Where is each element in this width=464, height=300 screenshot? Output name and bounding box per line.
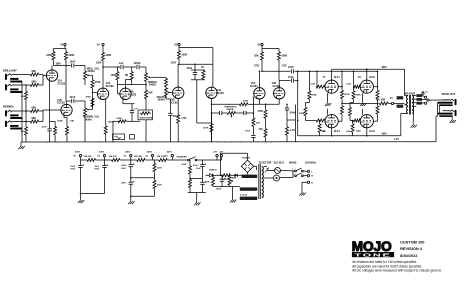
svg-text:120V/60Hz: 120V/60Hz (305, 162, 317, 164)
svg-text:1uF: 1uF (119, 62, 124, 65)
node HT b (220, 154, 222, 156)
svg-text:6.3V 4A: 6.3V 4A (240, 193, 247, 196)
svg-text:47K: 47K (206, 181, 210, 184)
resistor 10K PI tail lower (265, 124, 267, 129)
wire coupling to brill vol (54, 65, 71, 67)
resistor 470R screen lower left (341, 104, 343, 106)
svg-text:500KA: 500KA (158, 99, 166, 102)
resistor 100K V3B plate load (178, 48, 180, 51)
ground filter AB (80, 198, 82, 200)
power transformer core (258, 164, 260, 199)
jack brilliant input 2 (5, 84, 7, 90)
wire V1A plate node (53, 63, 55, 66)
jack speaker 1 (455, 99, 457, 105)
svg-text:820R: 820R (57, 120, 63, 122)
resistor 470K brilliant mixer (91, 74, 93, 76)
ground main left (20, 142, 22, 144)
resistor 220K bleeder C upper (154, 160, 156, 163)
wire to V5A grid (252, 97, 254, 105)
svg-text:470K: 470K (95, 81, 101, 84)
capacitor 47uF V1A cathode (49, 121, 51, 129)
svg-text:22nF: 22nF (70, 96, 76, 99)
capacitor 20uF filter D lower (202, 167, 204, 183)
resistor 220K PI input (238, 103, 241, 105)
svg-text:1N4007: 1N4007 (209, 168, 217, 171)
svg-text:100K: 100K (105, 54, 111, 57)
resistor 4.7K NFB (286, 120, 288, 127)
resistor 56K to master (152, 76, 166, 78)
resistor 470K V4A cathode (211, 113, 213, 124)
resistor 47K bias divider (212, 175, 214, 176)
terminal AC N (307, 175, 309, 177)
svg-text:220pF: 220pF (134, 62, 142, 65)
ground mains earth (301, 191, 303, 193)
resistor 470R screen upper left (341, 71, 343, 90)
capacitor 22nF master out (169, 99, 171, 113)
pentode V9 EL34 upper right (360, 80, 373, 93)
resistor 4.7K 5W bias (221, 174, 223, 176)
wire selector to speaker jacks (429, 99, 450, 101)
svg-text:1uF: 1uF (133, 108, 138, 110)
wire plate node to tone caps (103, 66, 120, 68)
ground speaker jacks (451, 118, 453, 120)
svg-text:449V: 449V (147, 151, 153, 154)
svg-text:430V: 430V (382, 132, 388, 135)
svg-text:All DC voltages were measured: All DC voltages were measured with respe… (352, 269, 441, 273)
node X3 B+ (130, 154, 132, 156)
wire master wiper to V3B grid (168, 91, 173, 94)
diode bias rectifier (235, 174, 238, 178)
svg-text:100K: 100K (181, 54, 187, 57)
wire V1B plate drop (65, 63, 67, 101)
resistor 220K right grid leak lower (349, 103, 351, 108)
triode V2A (97, 88, 108, 99)
svg-text:ECC83: ECC83 (250, 86, 258, 88)
svg-text:68K: 68K (32, 81, 37, 84)
node X1 B+ (171, 154, 173, 156)
OT secondary taps (412, 95, 416, 97)
wire upper grid bus (295, 70, 378, 72)
svg-text:STANDBY: STANDBY (177, 156, 188, 159)
svg-text:V5A: V5A (251, 82, 256, 85)
wire V4A out to presence (211, 104, 213, 142)
svg-text:47uF: 47uF (42, 125, 48, 128)
svg-text:8/30/2022: 8/30/2022 (400, 253, 418, 258)
wire jack1 to grid resistor (20, 74, 30, 76)
triode V1A (46, 70, 57, 81)
potentiometer BIAS (229, 175, 231, 176)
wire bridge AC legs (254, 165, 257, 167)
node X2 supply PI (261, 43, 263, 45)
wire filter AB bottom (81, 193, 105, 195)
wire bridge to HT (247, 153, 249, 160)
svg-text:10K: 10K (346, 131, 350, 133)
capacitor 32uF 500V filter B (104, 160, 106, 166)
svg-text:4.7K: 4.7K (290, 129, 295, 132)
wire NFB long run (296, 141, 437, 143)
wire plate bus upper (331, 69, 333, 80)
ground filter C (130, 199, 132, 201)
node X2 B+ (151, 154, 153, 156)
svg-text:500V: 500V (121, 183, 126, 185)
svg-text:470 10W: 470 10W (376, 99, 386, 102)
capacitor 22uF V3B (194, 64, 196, 70)
pentode V10 EL34 lower right (360, 115, 373, 128)
capacitor 20uF filter D upper (202, 160, 204, 165)
svg-text:ECC83: ECC83 (216, 92, 224, 95)
resistor 220K bleeder D upper (189, 160, 191, 162)
pilot lamp (264, 177, 274, 179)
wire mixer node to V2A grid (93, 92, 97, 94)
potentiometer BRILL VOL 500KA (84, 69, 86, 72)
wire bleeder D mid (190, 178, 203, 180)
svg-text:10nF: 10nF (70, 61, 76, 64)
svg-text:20uF: 20uF (121, 168, 126, 170)
potentiometer MIDDLE 500KB (145, 67, 147, 73)
pentode V8 EL34 lower left (325, 115, 338, 128)
wire lower grid riser (297, 71, 299, 135)
selector contact 16 (422, 96, 425, 97)
svg-text:68K: 68K (32, 70, 37, 73)
svg-text:ECC83: ECC83 (58, 82, 66, 85)
svg-text:MAINS: MAINS (289, 161, 297, 164)
resistor 470R PI tail upper (265, 104, 267, 110)
wire screen rail (342, 103, 378, 105)
wire V2A plate node (102, 66, 104, 68)
ground bus main (21, 141, 297, 143)
triode V5A phase inverter (254, 88, 265, 99)
potentiometer PRESENCE 500KB (226, 112, 228, 114)
resistor 820R V1A cathode (54, 121, 56, 126)
potentiometer NORMAL VOL 500KA (84, 106, 86, 109)
svg-text:ECC83: ECC83 (106, 85, 114, 88)
svg-text:ECC83: ECC83 (128, 93, 136, 96)
resistor 220K bleeder C lower (154, 178, 156, 181)
svg-text:220K: 220K (157, 185, 162, 187)
svg-text:EL34: EL34 (334, 130, 340, 133)
wire follower chain down (196, 80, 198, 123)
capacitor 47nF power coupling upper (290, 69, 292, 73)
resistor 1M brilliant grid leak (25, 85, 27, 88)
resistor 1.5K V3B cathode (177, 99, 179, 113)
resistor 220K V1B plate load (65, 49, 67, 52)
winding bar heater 2 (240, 197, 257, 200)
capacitor 10uF PI grid (251, 134, 255, 136)
svg-text:BASS 500KB: BASS 500KB (140, 116, 153, 119)
resistor 470K normal mixer (91, 109, 93, 111)
svg-text:22uF: 22uF (187, 67, 193, 70)
resistor 10K 5W filter 1 (85, 159, 88, 161)
resistor 470R screen lower right (377, 104, 379, 106)
wire X3 rail to V4A (179, 47, 213, 49)
label secondary 16 ohm (416, 94, 422, 97)
terminal earth (307, 181, 309, 183)
svg-text:15K 5W: 15K 5W (134, 156, 143, 158)
svg-text:ECC83: ECC83 (57, 102, 65, 105)
wire OT secondary bottom to ground (413, 106, 415, 111)
svg-text:SPKR OUT: SPKR OUT (442, 92, 456, 96)
svg-text:220K: 220K (181, 164, 186, 166)
svg-text:1M: 1M (21, 131, 24, 133)
resistor 5.6K grid stopper lower right (350, 120, 353, 122)
resistor 47K PI grid leak (252, 104, 254, 118)
ground OT secondary (412, 123, 414, 125)
capacitor 10nF brilliant coupling (71, 63, 73, 67)
wire bleeder C mid (131, 177, 155, 179)
svg-text:10uF: 10uF (245, 131, 251, 133)
svg-text:470R: 470R (344, 93, 350, 96)
svg-text:500KB: 500KB (149, 84, 156, 86)
wire OT primary bottom (400, 114, 402, 136)
wire B+ chain line (81, 159, 85, 161)
wire plate bus lower (331, 128, 333, 136)
svg-text:447V: 447V (167, 151, 173, 154)
svg-text:1K: 1K (201, 66, 204, 69)
selector common (422, 92, 424, 94)
svg-text:SLO-BLO: SLO-BLO (274, 162, 285, 164)
svg-text:220K: 220K (69, 54, 75, 57)
capacitor 220pF tone bright (136, 65, 138, 69)
node HT a (216, 154, 218, 156)
svg-text:5.6K: 5.6K (311, 84, 316, 86)
resistor 100K V2A plate load (102, 49, 104, 53)
svg-text:1N5408: 1N5408 (242, 157, 250, 160)
svg-text:500KB: 500KB (227, 109, 234, 111)
svg-text:ECC83: ECC83 (170, 101, 178, 104)
triode V3A (118, 93, 120, 95)
resistor 10K 10W filter 4 (158, 159, 160, 161)
node X4 B+ (103, 154, 105, 156)
svg-text:500KA: 500KA (88, 70, 96, 73)
svg-text:TONE: TONE (355, 252, 392, 258)
svg-text:All capacitors are rated for 6: All capacitors are rated for 630V unless… (352, 264, 422, 268)
resistor 1M normal grid leak (25, 112, 27, 127)
resistor 820R V1B cathode (63, 116, 65, 118)
node X1 screen supply (391, 102, 393, 104)
wire jack links (437, 103, 439, 116)
potentiometer MASTER 500KA (165, 87, 167, 90)
node X5 B+ final (79, 154, 81, 156)
svg-text:100K: 100K (281, 54, 287, 57)
svg-text:ECC83: ECC83 (273, 86, 281, 88)
capacitor 100nF presence (219, 111, 221, 115)
resistor 15K 5W filter 3 (134, 159, 137, 161)
svg-text:1.8K: 1.8K (70, 120, 75, 122)
switch mains pole 2 (295, 175, 297, 177)
wire jack sleeves to ground bus (21, 82, 23, 143)
svg-text:220K: 220K (157, 168, 162, 170)
jack brilliant input 1 (5, 74, 7, 80)
resistor 220K upper grid leak left (308, 71, 310, 91)
svg-text:REVISION 4: REVISION 4 (400, 246, 423, 251)
svg-text:47nF: 47nF (288, 76, 294, 79)
resistor 82K PI plate 1 (261, 49, 263, 52)
svg-text:220K: 220K (311, 95, 317, 97)
box footswitch (113, 134, 125, 140)
resistor 470R V3A cathode (113, 120, 119, 122)
wire V1A cathode (48, 81, 50, 121)
resistor 68K normal 2 (29, 121, 30, 123)
selector contact 4 (422, 102, 425, 104)
wire bias bottom (213, 186, 240, 188)
svg-text:SELECTOR: SELECTOR (259, 162, 272, 164)
svg-text:+HT: +HT (213, 152, 218, 154)
resistor 10K lower grid leak to rail (319, 121, 321, 124)
resistor 470R screen upper right (377, 71, 379, 90)
resistor 1K V3B (202, 69, 204, 72)
svg-text:1M: 1M (21, 96, 24, 98)
capacitor 32uF 500V filter A (80, 160, 82, 166)
svg-text:5.6K: 5.6K (346, 84, 351, 86)
jack normal input 1 (5, 110, 7, 116)
wire OT primary top (403, 69, 405, 96)
capacitor 1uF tone slope (120, 65, 122, 69)
svg-text:V10: V10 (356, 131, 361, 133)
capacitor 22nF normal coupling (67, 100, 71, 102)
resistor 220K lower grid leak left (305, 103, 307, 108)
node X3 supply (178, 43, 180, 45)
svg-text:400V: 400V (75, 151, 81, 154)
jack normal input 2 (5, 121, 7, 127)
label secondary 4 ohm (416, 102, 422, 105)
svg-text:470K: 470K (203, 127, 209, 130)
capacitor 100nF NFB (286, 104, 288, 108)
wire filter D bottom (188, 192, 206, 194)
svg-text:1.5K: 1.5K (181, 117, 186, 120)
resistor 100K PI plate 2 (278, 49, 280, 52)
svg-text:10K 5W: 10K 5W (109, 156, 118, 158)
ground cathode power tubes left (326, 93, 328, 101)
svg-text:220K: 220K (356, 95, 362, 97)
svg-text:470R: 470R (117, 117, 123, 120)
capacitor 20uF 500V filter C upper (130, 160, 132, 165)
svg-text:56K: 56K (148, 93, 153, 95)
fuse mains (267, 170, 274, 172)
svg-text:220K: 220K (243, 101, 249, 103)
winding bar heater 1 (240, 187, 257, 190)
resistor 5.6K grid stopper upper left (316, 71, 318, 86)
svg-text:BIAS: BIAS (232, 176, 237, 179)
wire cathode to bus (112, 121, 114, 142)
svg-text:470R: 470R (257, 110, 263, 113)
wire presence lower row (212, 112, 220, 114)
svg-text:100K: 100K (111, 74, 117, 77)
resistor 220K V1A plate load (53, 49, 55, 52)
svg-text:1M: 1M (125, 74, 128, 77)
svg-text:500KA: 500KA (85, 118, 93, 121)
jack speaker 2 (455, 110, 457, 116)
svg-text:500V: 500V (70, 169, 75, 171)
resistor 10K 5W filter 2 (109, 159, 112, 161)
svg-text:20uF: 20uF (196, 168, 201, 170)
resistor 68K brilliant 1 (29, 74, 30, 76)
capacitor 100uF bias (221, 175, 223, 179)
wire V3A plate (125, 80, 127, 89)
label OT lead lower (397, 105, 404, 108)
switch mains pole 1 (295, 170, 297, 172)
capacitor 47nF power coupling lower (290, 78, 292, 82)
box footswitch 2 (130, 135, 135, 139)
resistor 10K right grid leak to rail (352, 121, 354, 124)
resistor 5.6K grid stopper lower left (306, 120, 316, 122)
resistor 220K bleeder D lower (189, 178, 191, 181)
triode V1B (61, 104, 72, 115)
winding bar HV secondary (242, 175, 258, 178)
label OT lead upper (397, 96, 404, 99)
svg-text:380V: 380V (382, 67, 388, 69)
wire follower join (197, 122, 212, 124)
svg-text:100uF: 100uF (216, 189, 223, 191)
triode V5B phase inverter (274, 88, 285, 99)
svg-text:220K: 220K (299, 113, 305, 115)
wire tone mid rail (117, 85, 119, 94)
svg-text:430V: 430V (99, 151, 105, 154)
resistor 820R V2A cathode (105, 99, 107, 126)
resistor 10K tone chain (145, 85, 147, 91)
node X5 supply feed V1 plates (64, 43, 66, 45)
svg-text:EL34: EL34 (369, 130, 375, 133)
power transformer primary winding (262, 167, 264, 171)
svg-text:170V: 170V (254, 65, 260, 67)
triode V3B (173, 87, 184, 98)
svg-text:10K 5W: 10K 5W (84, 156, 93, 158)
resistor 470 10W screen feed (379, 103, 380, 105)
wire PI plate 1 to coupling cap (261, 64, 263, 72)
wire jack3 to grid resistor (20, 110, 30, 112)
wire NFB riser (295, 105, 297, 142)
box BASS control (138, 110, 153, 120)
resistor 220K right grid leak upper (353, 71, 355, 91)
svg-text:NORMAL: NORMAL (3, 105, 15, 109)
svg-text:BRILLIANT: BRILLIANT (3, 69, 17, 73)
svg-text:165V: 165V (96, 63, 102, 65)
ground bias (232, 198, 234, 200)
svg-text:4.7K: 4.7K (394, 138, 399, 141)
svg-text:470K: 470K (86, 95, 92, 98)
wire PI cathodes join (258, 99, 260, 104)
svg-text:175V: 175V (281, 65, 287, 67)
svg-text:68K: 68K (32, 117, 37, 120)
svg-text:220V: 220V (171, 62, 177, 64)
svg-text:CUSTOM 100: CUSTOM 100 (400, 240, 424, 245)
resistor 1M tone (131, 67, 133, 72)
svg-text:440V: 440V (125, 151, 131, 154)
wire filter C bottom (154, 192, 156, 196)
V3A cathode network (122, 100, 124, 104)
ground filter D (196, 201, 198, 203)
terminal AC L (307, 170, 309, 172)
wire jack4 tip (20, 121, 30, 123)
resistor 68K brilliant 2 (29, 84, 30, 86)
svg-text:68K: 68K (32, 107, 37, 110)
wire earth to ground (302, 181, 307, 183)
svg-text:All resistors are rated for 1W: All resistors are rated for 1W unless sp… (352, 260, 417, 264)
resistor 68K normal 1 (29, 110, 30, 112)
wire PI plate 2 to coupling cap (278, 64, 280, 81)
svg-text:82K: 82K (254, 54, 259, 57)
svg-text:EL34: EL34 (369, 76, 375, 79)
capacitor 1uF V3A cathode bypass (131, 104, 133, 111)
pentode V7 EL34 upper left (325, 80, 338, 93)
svg-text:MOJO: MOJO (352, 239, 392, 254)
svg-text:10K: 10K (258, 129, 263, 131)
wire presence upper row (212, 103, 239, 105)
svg-text:500V: 500V (94, 169, 99, 171)
label secondary 8 ohm (416, 98, 422, 101)
svg-text:EL34: EL34 (334, 76, 340, 79)
resistor 5.6K grid stopper upper right (353, 86, 356, 88)
node X4 supply feed V2A (102, 43, 104, 45)
